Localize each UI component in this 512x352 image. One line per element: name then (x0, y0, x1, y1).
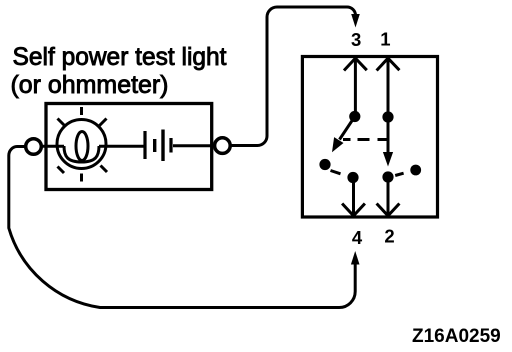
movable arm from pin 3 dot (340, 117, 355, 140)
svg-text:(or ohmmeter): (or ohmmeter) (11, 71, 169, 99)
battery B1 plate short 2 (169, 138, 172, 153)
wire right terminal to switch pin 3 (top route) (230, 7, 356, 146)
svg-text:Self power test light: Self power test light (13, 43, 227, 71)
pin 2 stem (387, 178, 390, 216)
lamp base cup (64, 146, 99, 162)
svg-text:4: 4 (352, 227, 363, 248)
arrowhead down on pin1 line (383, 152, 393, 167)
battery B1 plate short 1 (153, 139, 156, 152)
pin 3 arrowhead chevron up (344, 58, 367, 70)
pin 4 stem (352, 178, 355, 216)
fixed contact dot left (319, 159, 330, 170)
pin 4 arrowhead chevron down (342, 204, 365, 216)
lamp ray lower-left (58, 167, 65, 174)
wire battery to right terminal (173, 144, 214, 147)
svg-text:1: 1 (380, 29, 390, 50)
terminal left (26, 139, 42, 155)
test light box (46, 104, 212, 190)
svg-text:3: 3 (351, 29, 361, 50)
arrowhead down to pin 3 (351, 14, 360, 28)
lamp ray upper-left (58, 119, 66, 127)
arrowhead up to pin 4 (351, 251, 360, 265)
terminal right (215, 138, 231, 154)
svg-text:Z16A0259: Z16A0259 (412, 326, 501, 347)
fixed contact dot right (410, 165, 421, 176)
lamp ray bottom (80, 174, 83, 182)
contact dot pin 1 (382, 111, 393, 122)
svg-text:2: 2 (384, 226, 394, 247)
pin 3 stem (354, 58, 357, 117)
pin 1 arrowhead chevron up (377, 58, 400, 70)
lamp ray upper-right (100, 119, 107, 126)
battery B1 plate long 2 (161, 130, 164, 162)
lamp ray top (80, 107, 83, 115)
contact dot pin 2 (382, 171, 393, 182)
wire lamp to battery (99, 145, 144, 148)
dash fixed-left to pin4 (331, 171, 341, 174)
contact dot pin 4 (347, 172, 358, 183)
dash pin2 to fixed-right (395, 173, 403, 175)
battery B1 plate long 1 (143, 131, 146, 159)
switch box (302, 57, 437, 218)
wire left terminal to switch pin 4 (bottom route) (9, 147, 355, 308)
pin 1 stem (387, 58, 390, 154)
lamp DS1 bulb circle (57, 120, 106, 169)
arm arrowhead (332, 137, 344, 152)
pin 2 arrowhead chevron down (377, 204, 400, 216)
lamp filament oval (76, 132, 88, 161)
wire lamp to left terminal (41, 145, 64, 148)
lamp ray lower-right (101, 166, 108, 173)
dashed alternate position horizontal (343, 138, 388, 141)
contact dot pin 3 (349, 111, 360, 122)
